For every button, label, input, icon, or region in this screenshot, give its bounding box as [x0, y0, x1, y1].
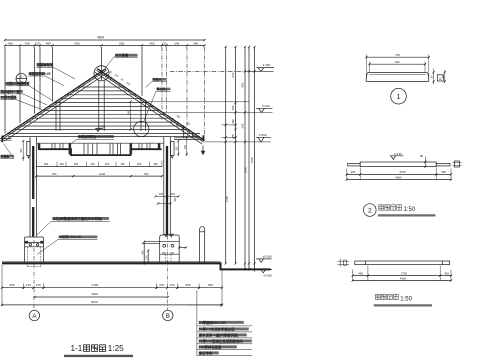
- svg-text:3.240: 3.240: [262, 104, 270, 108]
- svg-text:640: 640: [395, 60, 400, 64]
- left pedestal: [25, 237, 44, 263]
- svg-text:495: 495: [441, 170, 446, 174]
- svg-text:450: 450: [153, 162, 158, 166]
- left column: [30, 137, 37, 237]
- detail2 beam middle: [360, 162, 436, 167]
- svg-text:封檀板: 封檀板: [1, 154, 11, 159]
- svg-text:270: 270: [170, 283, 175, 287]
- svg-text:700: 700: [52, 172, 57, 176]
- right eave soffit: [174, 138, 203, 140]
- svg-text:2.590: 2.590: [259, 133, 267, 137]
- svg-text:20厚木望板: 20厚木望板: [1, 95, 18, 100]
- right eave fascia: [203, 135, 205, 141]
- svg-text:160: 160: [90, 162, 95, 166]
- dim texts row2: [8, 42, 199, 46]
- detail3 label glyph blocks: [376, 294, 399, 299]
- eave drip arrow: [202, 146, 204, 152]
- svg-text:45砂浆×150×50: 45砂浆×150×50: [59, 234, 82, 239]
- bottom extension lines: [2, 265, 222, 306]
- ridge leader line: [105, 56, 115, 68]
- svg-text:木挂瓦条30×25: 木挂瓦条30×25: [28, 71, 51, 76]
- svg-text:2: 2: [368, 208, 372, 215]
- detail callout circle on right post: [134, 121, 149, 136]
- right queen post: [141, 100, 146, 132]
- king post under ridge: [99, 81, 104, 132]
- svg-text:3620: 3620: [91, 292, 98, 296]
- svg-text:3750: 3750: [399, 170, 406, 174]
- svg-text:木枧(刷栄色): 木枧(刷栄色): [77, 134, 96, 139]
- title glyph blocks: [84, 345, 106, 352]
- ground line upper thin: [2, 261, 221, 263]
- chain junction ticks: [225, 46, 256, 271]
- svg-text:600: 600: [105, 162, 110, 166]
- apex level centerline: [170, 70, 248, 72]
- right ornament dims: [178, 137, 187, 156]
- detail2 dim row 1: [347, 173, 451, 175]
- svg-text:150: 150: [175, 146, 178, 151]
- svg-text:1:50: 1:50: [404, 207, 416, 213]
- svg-text:440: 440: [8, 42, 13, 46]
- detail3 label underline: [374, 304, 432, 306]
- detail1 plank outline: [366, 72, 429, 81]
- svg-text:250: 250: [162, 252, 167, 255]
- svg-text:4560: 4560: [395, 175, 402, 179]
- level connector eave: [205, 141, 271, 143]
- elevation marker 4.100: [248, 68, 274, 72]
- detail2 height dim: [424, 157, 426, 167]
- lattice thick stepped band: [38, 149, 162, 155]
- svg-text:40厚1:3水泥砂浆: 40厚1:3水泥砂浆: [6, 81, 31, 86]
- svg-text:495: 495: [351, 170, 356, 174]
- detail1 dim line overall: [366, 56, 429, 58]
- extension lines from top dims: [5, 47, 142, 134]
- svg-text:750: 750: [395, 53, 400, 57]
- bottom dim row 1: [2, 287, 222, 289]
- detail2 beam thin ends: [348, 163, 361, 166]
- svg-text:B: B: [166, 313, 170, 320]
- svg-text:素水泥浆一道(内掺建筑胶): 素水泥浆一道(内掺建筑胶): [198, 333, 239, 338]
- svg-text:380: 380: [231, 119, 235, 124]
- bollard right of pedestal: [200, 231, 205, 263]
- svg-text:2180: 2180: [92, 283, 99, 287]
- tile course ticks right slope: [108, 77, 196, 137]
- svg-text:440: 440: [193, 42, 198, 46]
- svg-text:3750: 3750: [401, 271, 408, 275]
- detail3 left end symbol: [338, 259, 350, 267]
- detail1 number bubble: [391, 88, 407, 104]
- svg-text:1:25: 1:25: [108, 344, 124, 353]
- elevation marker -0.450: [258, 270, 272, 273]
- svg-text:4.100: 4.100: [263, 63, 271, 67]
- svg-text:60厚C15混凝土垫层配筋双向: 60厚C15混凝土垫层配筋双向: [199, 339, 244, 344]
- left queen post: [56, 102, 60, 132]
- elevation marker 2.590: [256, 137, 271, 142]
- svg-text:4560: 4560: [400, 276, 407, 280]
- bottom dim row 3: [2, 304, 222, 306]
- roof right slope sheathing lines: [97, 69, 204, 141]
- bottom dim row 2: [35, 296, 168, 298]
- svg-text:270: 270: [159, 283, 164, 287]
- detail3 bar joints: [366, 261, 443, 265]
- svg-text:650: 650: [208, 283, 213, 287]
- svg-text:±0.000: ±0.000: [263, 254, 273, 258]
- svg-text:160: 160: [59, 162, 64, 166]
- right column: [164, 137, 171, 235]
- svg-text:1200: 1200: [99, 172, 106, 176]
- right eave struts: [183, 126, 192, 138]
- CJK label tone strips: [0, 54, 251, 355]
- elevation marker +0.000: [256, 259, 272, 262]
- svg-text:1-1: 1-1: [71, 344, 83, 353]
- svg-text:1450: 1450: [243, 166, 247, 173]
- lattice thin slats side: [52, 144, 150, 149]
- svg-text:480: 480: [149, 42, 154, 46]
- dim ticks row2: [4, 44, 206, 46]
- svg-text:960: 960: [74, 42, 79, 46]
- right column mid dim: [156, 195, 179, 197]
- ridge circle at apex: [94, 66, 109, 81]
- axis bubble B: [163, 310, 173, 320]
- lattice top rail: [37, 142, 164, 144]
- svg-text:素土夸实: 素土夸实: [198, 351, 213, 356]
- right hanging post: [171, 142, 175, 156]
- level connector purlin: [163, 111, 273, 113]
- svg-text:120: 120: [35, 42, 40, 46]
- notes leader: [188, 290, 222, 356]
- svg-text:瓦屋面做法: 瓦屋面做法: [37, 62, 54, 67]
- svg-text:老戣木: 老戣木: [153, 77, 162, 82]
- detail1 dim line inner: [370, 63, 426, 65]
- svg-text:270: 270: [145, 255, 148, 260]
- detail2 number bubble: [364, 204, 377, 217]
- svg-text:270: 270: [26, 283, 31, 287]
- svg-text:905: 905: [119, 42, 124, 46]
- beam band lines: [15, 129, 187, 131]
- elevation marker 3.240: [256, 108, 273, 112]
- svg-text:2.440: 2.440: [394, 152, 402, 156]
- detail2 dim row 2: [347, 179, 451, 181]
- svg-text:150: 150: [184, 144, 187, 149]
- svg-text:2.980: 2.980: [98, 125, 106, 129]
- svg-text:1: 1: [20, 75, 22, 79]
- svg-text:120: 120: [162, 42, 167, 46]
- level connector ridge: [147, 101, 249, 103]
- svg-text:4604: 4604: [97, 36, 104, 40]
- detail2 right end symbol: [455, 161, 460, 167]
- left ornament dim: [22, 141, 24, 161]
- chain vertical lines: [226, 47, 255, 272]
- svg-text:1:50: 1:50: [400, 296, 412, 302]
- svg-text:150厚碎石垫层: 150厚碎石垫层: [199, 345, 222, 350]
- detail3 dim row 1: [353, 275, 451, 277]
- level connector stubs: [222, 125, 237, 137]
- svg-text:940: 940: [231, 72, 235, 77]
- detail3 dim row 2: [353, 280, 451, 282]
- svg-text:80: 80: [420, 154, 424, 158]
- svg-text:250: 250: [170, 252, 175, 255]
- detail1 extension lines: [366, 55, 429, 80]
- left hanging post: [27, 142, 30, 156]
- svg-text:150: 150: [20, 148, 23, 153]
- ground line thick with step: [2, 263, 271, 269]
- svg-text:495: 495: [358, 271, 363, 275]
- svg-text:150: 150: [159, 192, 164, 196]
- svg-text:防水卷材一道: 防水卷材一道: [1, 89, 21, 94]
- lattice dim line 1: [36, 165, 162, 167]
- svg-text:200: 200: [74, 162, 79, 166]
- svg-text:640: 640: [241, 123, 245, 128]
- svg-text:200: 200: [137, 162, 142, 166]
- svg-text:560: 560: [185, 283, 190, 287]
- left eave fascia: [1, 136, 3, 143]
- slope dim ticks and texts: [105, 74, 189, 132]
- svg-text:240: 240: [25, 42, 30, 46]
- notes texts: [198, 320, 244, 356]
- roof left slope sheathing lines: [2, 69, 106, 138]
- svg-text:杉木脊檰: 杉木脊檰: [114, 53, 129, 58]
- detail1 plank inner line: [369, 74, 425, 76]
- lattice thin slats middle: [84, 144, 121, 155]
- svg-text:980: 980: [241, 82, 245, 87]
- svg-text:5640: 5640: [91, 300, 98, 304]
- detail2 label glyph blocks: [379, 205, 402, 210]
- dim line segments (second row): [5, 45, 205, 47]
- svg-text:150: 150: [171, 192, 176, 196]
- title underline: [64, 355, 133, 357]
- svg-text:490: 490: [46, 42, 51, 46]
- right pedestal: [160, 235, 180, 263]
- svg-text:2790: 2790: [225, 195, 229, 202]
- detail reference bubble: [16, 73, 27, 84]
- svg-text:450: 450: [141, 250, 144, 255]
- svg-text:495: 495: [444, 271, 449, 275]
- left eave soffit: [0, 139, 12, 141]
- detail2 extension lines: [347, 168, 451, 181]
- svg-text:700: 700: [144, 172, 149, 176]
- svg-text:木柱(刷聚酱清漆三遍色同木构架): 木柱(刷聚酱清漆三遍色同木构架): [52, 216, 103, 221]
- svg-text:240: 240: [126, 110, 130, 115]
- svg-text:280: 280: [231, 105, 235, 110]
- post height dim: [130, 102, 132, 130]
- detail1 right dims: [434, 69, 445, 85]
- notes underlines: [197, 326, 252, 356]
- lattice dim line 2: [36, 175, 162, 177]
- svg-text:300: 300: [173, 197, 177, 202]
- detail3 bar: [355, 261, 450, 265]
- lattice dark slats at steps and ends: [38, 144, 41, 149]
- column axis dashed lines: [34, 236, 167, 311]
- svg-text:560: 560: [9, 283, 14, 287]
- svg-text:10厚面砌600×100: 10厚面砌600×100: [199, 320, 226, 325]
- svg-text:4100: 4100: [250, 156, 254, 163]
- extension centerlines (dash-dot): [162, 47, 205, 135]
- axis bubble A: [29, 310, 39, 320]
- svg-text:450: 450: [44, 162, 49, 166]
- gable purlin lines: [78, 86, 125, 88]
- dim line overall (top): [5, 39, 205, 41]
- svg-text:160: 160: [120, 162, 125, 166]
- tile course ticks left slope: [13, 77, 96, 133]
- right pedestal dims: [144, 242, 148, 265]
- svg-text:20厚1:2水泥砂浆结合层: 20厚1:2水泥砂浆结合层: [199, 327, 235, 332]
- chain rotated dim texts: [225, 72, 254, 202]
- svg-text:1: 1: [396, 92, 400, 101]
- svg-text:240: 240: [174, 42, 179, 46]
- svg-text:-0.450: -0.450: [263, 274, 272, 278]
- detail2 label underline: [378, 214, 436, 216]
- svg-text:270: 270: [36, 283, 41, 287]
- svg-text:脊瓜柱: 脊瓜柱: [156, 86, 166, 91]
- detail3 extension lines: [353, 266, 451, 282]
